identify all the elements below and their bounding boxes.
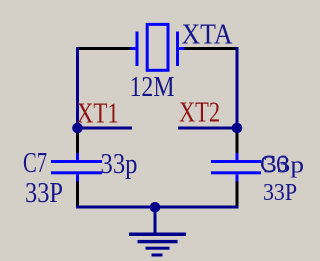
junction XT2 xyxy=(232,123,243,134)
wire xyxy=(236,181,239,207)
wire xyxy=(76,206,239,209)
wire xyxy=(185,47,237,50)
wire xyxy=(76,47,79,128)
ground xyxy=(129,208,186,257)
svg-text:33p: 33p xyxy=(101,149,138,180)
crystal XTA xyxy=(131,24,185,70)
svg-text:C7: C7 xyxy=(23,148,47,179)
capacitor C6 xyxy=(211,153,261,181)
svg-text:33P: 33P xyxy=(25,178,63,209)
junction XT1 xyxy=(72,123,83,134)
svg-text:33P: 33P xyxy=(263,180,297,206)
wire xyxy=(236,47,239,128)
capacitor C7 xyxy=(51,153,102,181)
svg-text:XTA: XTA xyxy=(182,20,234,51)
wire xyxy=(178,127,237,130)
junction (ground tap) xyxy=(150,202,161,213)
svg-text:XT1: XT1 xyxy=(77,99,119,130)
svg-text:12M: 12M xyxy=(130,72,175,103)
svg-text:33p: 33p xyxy=(263,153,304,179)
wire xyxy=(76,132,79,154)
wire xyxy=(236,132,239,154)
wire xyxy=(76,181,79,207)
wire xyxy=(77,127,132,130)
svg-text:XT2: XT2 xyxy=(179,98,220,129)
wire xyxy=(78,47,131,50)
